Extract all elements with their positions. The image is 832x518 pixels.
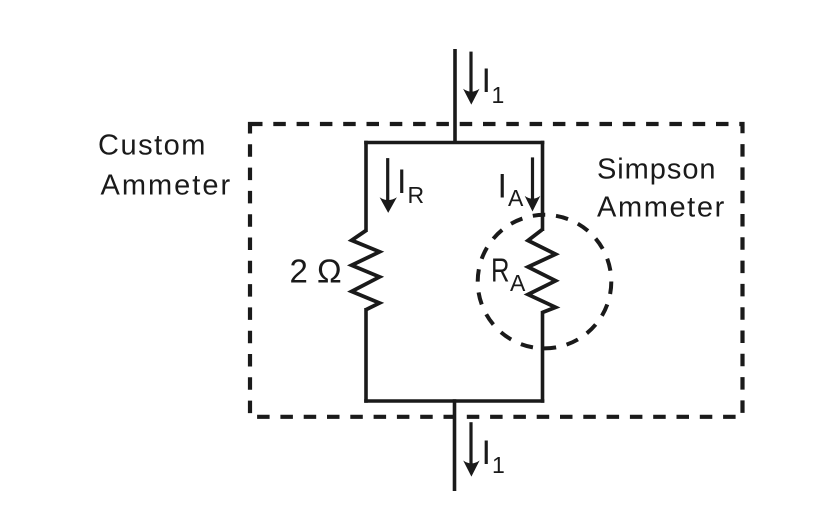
wire: right branch upper segment — [541, 141, 545, 231]
arrow I1 top — [463, 52, 479, 105]
svg-text:I: I — [498, 168, 507, 206]
resistor RA (zigzag) — [528, 230, 556, 313]
svg-text:1: 1 — [492, 452, 505, 478]
wire: left branch lower segment — [364, 308, 368, 403]
wire: top horizontal bus — [364, 141, 544, 145]
svg-text:A: A — [508, 185, 524, 211]
svg-text:I: I — [397, 163, 406, 201]
svg-text:R: R — [408, 182, 425, 208]
svg-text:I: I — [482, 434, 491, 472]
svg-text:A: A — [510, 270, 526, 296]
label IA — [498, 168, 525, 211]
svg-text:Simpson: Simpson — [597, 153, 716, 185]
wire: top input lead — [453, 49, 457, 144]
arrow I1 bottom — [463, 422, 479, 476]
label Simpson Ammeter — [597, 153, 726, 223]
svg-text:Custom: Custom — [98, 130, 207, 162]
label IR — [397, 163, 424, 208]
simpson ammeter symbol (dashed circle) — [478, 215, 612, 349]
arrow IR — [380, 158, 397, 213]
label I1 bottom — [482, 434, 505, 478]
label Custom Ammeter — [98, 130, 232, 202]
label RA — [491, 252, 526, 296]
svg-text:I: I — [482, 62, 491, 100]
arrow IA — [525, 157, 541, 211]
resistor R1 2-ohm (zigzag) — [352, 231, 380, 310]
label I1 top — [482, 62, 505, 108]
wire: bottom output lead — [453, 399, 457, 491]
wire: left branch upper segment — [364, 141, 368, 232]
svg-text:1: 1 — [492, 82, 505, 108]
svg-text:R: R — [491, 252, 510, 289]
wire: bottom horizontal bus — [364, 399, 544, 403]
custom ammeter boundary (dashed box) — [250, 124, 743, 417]
wire: right branch lower segment — [541, 311, 545, 403]
svg-text:Ammeter: Ammeter — [101, 170, 233, 202]
svg-text:2 Ω: 2 Ω — [290, 253, 342, 290]
svg-text:Ammeter: Ammeter — [597, 192, 726, 224]
